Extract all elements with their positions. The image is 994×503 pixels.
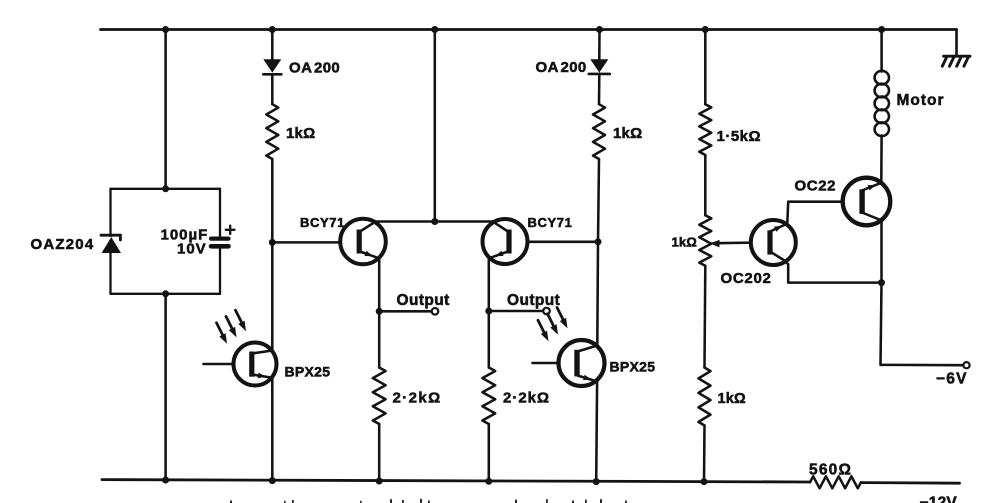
svg-text:BPX25: BPX25 <box>285 364 331 380</box>
node A: base junction of Q1 <box>269 239 276 246</box>
wire: box right edge (capacitor branch) <box>219 189 221 294</box>
svg-text:10V: 10V <box>177 241 207 258</box>
resistor R4 2.2k <box>482 368 495 425</box>
terminal: output 2 <box>543 308 550 315</box>
phototransistor Q3 base stub <box>204 363 235 366</box>
label Motor <box>897 92 945 109</box>
transistor Q2 BCY71 body <box>483 219 528 264</box>
svg-text:−12V: −12V <box>920 495 958 503</box>
wire: resistor R6 to bottom rail <box>703 426 706 482</box>
potentiometer RV1 1k element <box>699 215 711 266</box>
transistor Q1 emitter lead w/ arrow <box>360 251 379 258</box>
label OC202 (Q5) <box>721 270 772 287</box>
phototransistor Q4 collector lead <box>578 346 598 352</box>
light arrows into Q4 <box>538 307 568 341</box>
label -6V <box>936 371 968 388</box>
label 1.5k (R5) <box>717 128 762 145</box>
label BCY71 (Q1) <box>300 215 345 230</box>
label Output (2) <box>507 292 560 309</box>
transistor Q2 emitter lead w/ arrow <box>489 251 508 258</box>
wire: Q5 emitter to Q6 base <box>787 202 842 224</box>
wire: top rail to diode D2 <box>598 30 601 60</box>
node: junction bottom rail / R4 <box>485 478 492 485</box>
svg-text:OAZ204: OAZ204 <box>31 236 95 253</box>
motor winding (coil) <box>875 71 889 136</box>
wire: box loop around OAZ204 and capacitor (top+bottom edges) <box>111 189 221 294</box>
wire: collector tie line Q1-Q2 <box>375 220 496 223</box>
label 1k (R2) <box>613 125 642 142</box>
diode D2 OA200 <box>589 59 610 74</box>
svg-text:1kΩ: 1kΩ <box>613 125 642 142</box>
transistor Q1 collector lead <box>360 222 375 231</box>
label 1k (R1) <box>286 125 315 142</box>
svg-text:−6V: −6V <box>936 371 968 388</box>
svg-text:OC202: OC202 <box>721 270 772 287</box>
svg-text:OA 200: OA 200 <box>536 59 587 76</box>
wire: base of Q1 from node A <box>272 241 340 244</box>
wire: resistor R5 to potentiometer RV1 <box>704 155 707 215</box>
resistor R6 1k <box>699 368 711 426</box>
node: junction tie line <box>431 218 438 225</box>
resistor R2 1k <box>593 104 605 159</box>
wire: top rail to resistor R5 <box>704 30 707 105</box>
wire: node A to phototransistor Q3 collector <box>271 242 274 350</box>
phototransistor Q4 emitter lead w/ arrow <box>578 375 598 382</box>
label Output (1) <box>397 292 450 309</box>
resistor R3 2.2k <box>373 368 386 425</box>
resistor R7 560 <box>810 476 861 488</box>
svg-text:BCY71: BCY71 <box>300 215 345 230</box>
node: junction top rail / tie wire <box>431 26 438 33</box>
capacitor C1 100uF plates <box>211 239 229 247</box>
phototransistor Q4 BPX25 body <box>559 340 605 386</box>
diode D1 OA200 <box>263 59 281 74</box>
svg-text:1kΩ: 1kΩ <box>672 235 697 250</box>
phototransistor Q3 BPX25 body <box>234 343 277 386</box>
light arrows into Q3 <box>217 310 247 344</box>
transistor Q6 OC22 body <box>843 178 891 226</box>
transistor Q2 base bar <box>506 230 511 254</box>
phototransistor Q4 base bar <box>574 350 579 377</box>
transistor Q5 emitter lead w/ arrow <box>770 224 787 232</box>
wire: motor to Q6 emitter <box>880 136 883 183</box>
wire: Q1 emitter down to output node <box>378 258 381 311</box>
wire: output lead 2 <box>489 310 543 313</box>
wire: box left edge (zener branch) <box>109 189 111 294</box>
node B: base junction of Q2 <box>595 238 602 245</box>
wire: output node 2 to resistor R4 <box>488 311 491 368</box>
wire: Q2 emitter down to output node <box>488 258 491 311</box>
wire: node B to phototransistor Q4 collector <box>596 242 599 346</box>
node: junction top rail / motor branch <box>878 26 885 33</box>
svg-text:Output: Output <box>397 292 450 309</box>
node: junction top rail / box branch <box>162 26 169 33</box>
wire: bottom -12V rail (left section) <box>102 480 810 482</box>
wire: potentiometer RV1 to resistor R6 <box>703 266 706 368</box>
label 10V <box>177 241 207 258</box>
wire: resistor R4 to bottom rail <box>488 424 491 481</box>
svg-text:1kΩ: 1kΩ <box>286 125 315 142</box>
svg-text:2·2kΩ: 2·2kΩ <box>393 390 442 407</box>
wire: output node 1 to resistor R3 <box>378 311 381 367</box>
svg-text:Motor: Motor <box>897 92 945 109</box>
node: junction bottom rail / R6 branch <box>701 478 708 485</box>
label 2.2k (R4) <box>503 390 550 407</box>
wire: top rail to tie line <box>434 30 437 222</box>
wire: resistor R3 to bottom rail <box>378 424 381 481</box>
wire: resistor R2 to node B <box>598 159 599 242</box>
label BPX25 (Q3) <box>285 364 331 380</box>
label OC22 (Q6) <box>795 178 837 195</box>
node: junction on box bottom edge <box>162 290 169 297</box>
wire: Q3 emitter to bottom rail <box>271 378 274 481</box>
terminal: -6V <box>963 362 969 368</box>
svg-text:Output: Output <box>507 292 560 309</box>
resistor R1 1k <box>266 104 278 159</box>
svg-text:1kΩ: 1kΩ <box>718 391 747 407</box>
svg-text:560Ω: 560Ω <box>809 462 852 479</box>
svg-text:BPX25: BPX25 <box>610 359 656 375</box>
label BCY71 (Q2) <box>528 215 573 230</box>
svg-text:OA 200: OA 200 <box>289 60 340 77</box>
wire: diode D1 to resistor R1 <box>271 74 274 104</box>
node: junction top rail / diode D2 branch <box>596 26 603 33</box>
node: junction bottom rail / Q4 branch <box>593 478 600 485</box>
node: output junction 1 <box>376 308 383 315</box>
node C: collector junction <box>878 279 885 286</box>
svg-text:BCY71: BCY71 <box>528 215 573 230</box>
transistor Q6 emitter lead w/ arrow <box>862 183 881 191</box>
phototransistor Q3 emitter lead w/ arrow <box>252 373 272 379</box>
svg-text:2·2kΩ: 2·2kΩ <box>503 390 550 407</box>
label OA200 (D1) <box>289 60 340 77</box>
transistor Q6 base bar <box>859 189 864 214</box>
phototransistor Q3 collector lead <box>252 351 272 354</box>
node: junction bottom rail / box branch <box>162 477 169 484</box>
potentiometer RV1 wiper arrow <box>710 240 752 247</box>
label 2.2k (R3) <box>393 390 442 407</box>
zener diode OAZ204 <box>101 235 121 253</box>
transistor Q5 base bar <box>767 230 772 254</box>
wire: top supply rail (earth rail) <box>101 28 957 31</box>
ground (earth) symbol <box>942 56 970 66</box>
svg-text:OC22: OC22 <box>795 178 837 195</box>
wire: Q4 emitter to bottom rail <box>595 382 598 482</box>
label 1k (RV1) <box>672 235 697 250</box>
transistor Q1 BCY71 body <box>340 219 386 265</box>
label 1k (R6) <box>718 391 747 407</box>
node: junction top rail / diode D1 branch <box>269 26 276 33</box>
terminal: output 1 <box>432 308 439 315</box>
wire: node C down to -6V lead <box>881 283 964 366</box>
phototransistor Q4 base stub <box>533 362 560 365</box>
label BPX25 (Q4) <box>610 359 656 375</box>
resistor R5 1.5k <box>699 104 711 155</box>
wire: top rail to diode D1 <box>271 30 274 60</box>
node: junction top rail / R5 branch <box>702 26 709 33</box>
wire: base of Q2 to node B <box>528 241 598 244</box>
node: junction bottom rail / R3 <box>376 478 383 485</box>
capacitor C1 polarity + sign <box>226 226 235 234</box>
label 560 (R7) <box>809 462 852 479</box>
wire: earth stub from top rail <box>955 30 958 57</box>
node: output junction 2 <box>485 308 492 315</box>
transistor Q1 base bar <box>357 230 362 254</box>
label 100uF <box>161 227 209 244</box>
wire: bottom -12V rail (right section) <box>861 481 960 484</box>
wire: box bottom to bottom rail <box>164 294 167 480</box>
node: junction on box top edge <box>162 185 169 192</box>
wire: Q5 collector to node C <box>785 261 882 283</box>
wire: output lead 1 <box>379 310 431 313</box>
cropped caption text fragments (page edge) <box>230 499 627 503</box>
wire: Q6 collector to node C <box>880 220 883 282</box>
wire: resistor R1 to base node A <box>271 159 274 242</box>
wire: diode D2 to resistor R2 <box>598 74 601 104</box>
svg-text:1·5kΩ: 1·5kΩ <box>717 128 762 145</box>
phototransistor Q3 base bar <box>249 352 254 377</box>
label OA200 (D2) <box>536 59 587 76</box>
node: junction bottom rail / Q3 branch <box>269 477 276 484</box>
transistor Q5 OC202 body <box>751 220 796 265</box>
transistor Q2 collector lead <box>494 222 508 231</box>
wire: top rail to motor <box>880 30 883 72</box>
transistor Q5 collector lead <box>770 252 785 261</box>
label -12V <box>920 495 958 503</box>
label OAZ204 <box>31 236 95 253</box>
transistor Q6 collector lead <box>862 213 881 221</box>
wire: top rail to smoothing box <box>164 30 167 190</box>
